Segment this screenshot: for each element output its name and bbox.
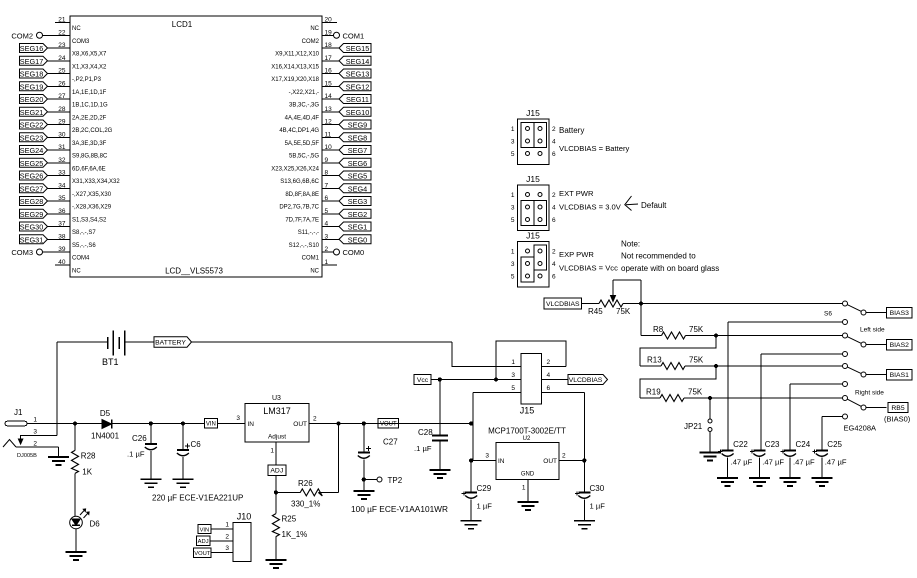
svg-text:2: 2 xyxy=(313,416,317,423)
svg-text:SEG12: SEG12 xyxy=(346,82,370,91)
svg-text:J10: J10 xyxy=(237,512,252,522)
svg-text:24: 24 xyxy=(58,55,66,62)
svg-text:34: 34 xyxy=(58,182,66,189)
svg-text:6: 6 xyxy=(552,151,556,158)
svg-text:SEG17: SEG17 xyxy=(20,57,44,66)
svg-text:SEG22: SEG22 xyxy=(20,121,44,130)
svg-text:SEG0: SEG0 xyxy=(348,235,367,244)
svg-text:C22: C22 xyxy=(733,440,748,449)
svg-text:SEG27: SEG27 xyxy=(20,184,44,193)
svg-text:LCD__VLS5573: LCD__VLS5573 xyxy=(165,267,223,276)
svg-text:3: 3 xyxy=(511,372,515,379)
svg-text:3: 3 xyxy=(511,139,515,146)
svg-text:4: 4 xyxy=(547,372,551,379)
svg-text:Vcc: Vcc xyxy=(417,377,429,384)
svg-text:VIN: VIN xyxy=(200,527,210,533)
svg-text:COM2: COM2 xyxy=(11,31,33,40)
svg-text:SEG1: SEG1 xyxy=(348,223,367,232)
svg-text:33: 33 xyxy=(58,170,66,177)
svg-text:5B,5C,-,5G: 5B,5C,-,5G xyxy=(289,154,319,160)
svg-text:X16,X14,X13,X15: X16,X14,X13,X15 xyxy=(271,64,319,70)
svg-text:EXT PWR: EXT PWR xyxy=(559,189,594,198)
svg-text:6: 6 xyxy=(325,195,329,202)
svg-text:C29: C29 xyxy=(477,484,492,493)
svg-text:2: 2 xyxy=(325,246,329,253)
svg-text:.47 µF: .47 µF xyxy=(762,458,784,467)
svg-text:COM0: COM0 xyxy=(343,248,365,257)
svg-text:C26: C26 xyxy=(132,434,147,443)
svg-text:1: 1 xyxy=(325,259,329,266)
svg-text:Note:: Note: xyxy=(621,240,640,249)
svg-text:SEG7: SEG7 xyxy=(348,146,367,155)
svg-text:1K_1%: 1K_1% xyxy=(282,530,308,539)
svg-text:1: 1 xyxy=(511,359,515,366)
svg-text:3: 3 xyxy=(33,429,37,436)
svg-text:S1,S3,S4,S2: S1,S3,S4,S2 xyxy=(72,217,107,223)
svg-text:COM3: COM3 xyxy=(72,39,90,45)
svg-text:.47 µF: .47 µF xyxy=(825,458,847,467)
svg-text:13: 13 xyxy=(325,106,333,113)
svg-text:operate with on board glass: operate with on board glass xyxy=(621,264,719,273)
svg-text:C24: C24 xyxy=(796,440,811,449)
svg-text:1: 1 xyxy=(511,249,515,256)
svg-text:COM1: COM1 xyxy=(343,31,365,40)
svg-text:37: 37 xyxy=(58,221,66,228)
svg-text:S6: S6 xyxy=(824,311,832,318)
svg-text:ADJ: ADJ xyxy=(270,468,283,475)
svg-text:1: 1 xyxy=(511,126,515,133)
svg-text:BIAS3: BIAS3 xyxy=(890,310,909,317)
svg-text:Right side: Right side xyxy=(855,390,884,397)
svg-text:SEG30: SEG30 xyxy=(20,223,44,232)
svg-text:X8,X6,X5,X7: X8,X6,X5,X7 xyxy=(72,52,107,58)
svg-text:-,X28,X36,X29: -,X28,X36,X29 xyxy=(72,205,112,211)
svg-text:SEG21: SEG21 xyxy=(20,108,44,117)
svg-text:1: 1 xyxy=(225,522,229,529)
svg-text:VLCDBIAS = 3.0V: VLCDBIAS = 3.0V xyxy=(559,203,622,212)
svg-text:330_1%: 330_1% xyxy=(291,500,320,509)
svg-text:DP2,7G,7B,7C: DP2,7G,7B,7C xyxy=(279,205,319,211)
svg-text:COM4: COM4 xyxy=(72,256,90,262)
svg-text:J1: J1 xyxy=(14,408,23,417)
svg-text:VLCDBIAS = Vcc: VLCDBIAS = Vcc xyxy=(559,264,618,273)
svg-text:VIN: VIN xyxy=(206,421,216,427)
svg-text:26: 26 xyxy=(58,80,66,87)
svg-text:VLCDBIAS: VLCDBIAS xyxy=(569,377,603,384)
svg-text:SEG16: SEG16 xyxy=(20,44,44,53)
svg-text:15: 15 xyxy=(325,80,333,87)
svg-text:SEG24: SEG24 xyxy=(20,146,44,155)
svg-text:R8: R8 xyxy=(653,325,664,334)
svg-text:4: 4 xyxy=(552,261,556,268)
svg-text:SEG26: SEG26 xyxy=(20,172,44,181)
svg-text:3: 3 xyxy=(511,261,515,268)
svg-text:.1 µF: .1 µF xyxy=(127,450,145,459)
svg-text:SEG13: SEG13 xyxy=(346,70,370,79)
svg-text:14: 14 xyxy=(325,93,333,100)
svg-text:17: 17 xyxy=(325,55,333,62)
svg-text:SEG14: SEG14 xyxy=(346,57,370,66)
svg-text:5: 5 xyxy=(511,385,515,392)
svg-text:SEG11: SEG11 xyxy=(346,95,369,104)
svg-text:U3: U3 xyxy=(272,395,281,402)
svg-text:7D,7F,7A,7E: 7D,7F,7A,7E xyxy=(285,217,319,223)
svg-text:R28: R28 xyxy=(81,452,96,461)
svg-text:J15: J15 xyxy=(520,406,535,416)
svg-text:SEG4: SEG4 xyxy=(348,184,367,193)
svg-text:3: 3 xyxy=(225,545,229,552)
svg-text:J15: J15 xyxy=(526,231,540,241)
svg-text:SEG10: SEG10 xyxy=(346,108,370,117)
svg-text:1: 1 xyxy=(511,192,515,199)
svg-text:SEG23: SEG23 xyxy=(20,133,44,142)
svg-text:3: 3 xyxy=(236,415,240,422)
svg-text:1 µF: 1 µF xyxy=(477,502,493,511)
svg-text:SEG28: SEG28 xyxy=(20,197,44,206)
svg-text:29: 29 xyxy=(58,119,66,126)
svg-text:8D,8F,8A,8E: 8D,8F,8A,8E xyxy=(285,192,319,198)
svg-text:.1 µF: .1 µF xyxy=(414,444,432,453)
svg-text:75K: 75K xyxy=(689,325,704,334)
svg-text:Left side: Left side xyxy=(860,327,885,334)
svg-text:BATTERY: BATTERY xyxy=(155,339,186,346)
svg-text:2: 2 xyxy=(552,192,556,199)
svg-text:COM3: COM3 xyxy=(11,248,33,257)
svg-text:COM1: COM1 xyxy=(302,256,320,262)
svg-text:S12,-,-,S10: S12,-,-,S10 xyxy=(289,243,320,249)
svg-text:S8,-,-,S7: S8,-,-,S7 xyxy=(72,230,96,236)
svg-text:2: 2 xyxy=(225,534,229,541)
svg-text:2: 2 xyxy=(547,359,551,366)
svg-text:4: 4 xyxy=(325,221,329,228)
svg-text:.47 µF: .47 µF xyxy=(793,458,815,467)
svg-text:12: 12 xyxy=(325,119,333,126)
svg-text:30: 30 xyxy=(58,131,66,138)
svg-text:75K: 75K xyxy=(689,356,704,365)
svg-text:3: 3 xyxy=(325,233,329,240)
svg-text:1K: 1K xyxy=(82,468,92,477)
svg-text:3: 3 xyxy=(511,205,515,212)
svg-text:(BIAS0): (BIAS0) xyxy=(884,415,911,424)
svg-text:1: 1 xyxy=(270,448,274,455)
svg-text:5A,5E,5D,5F: 5A,5E,5D,5F xyxy=(285,141,320,147)
svg-text:R13: R13 xyxy=(647,356,662,365)
svg-text:RB5: RB5 xyxy=(891,405,904,412)
svg-text:3A,3E,3D,3F: 3A,3E,3D,3F xyxy=(72,141,107,147)
svg-text:75K: 75K xyxy=(688,388,703,397)
svg-text:R19: R19 xyxy=(646,388,661,397)
svg-text:Battery: Battery xyxy=(559,126,584,135)
svg-text:BT1: BT1 xyxy=(102,357,119,367)
svg-text:SEG2: SEG2 xyxy=(348,210,367,219)
svg-text:6: 6 xyxy=(547,385,551,392)
svg-text:1N4001: 1N4001 xyxy=(91,432,120,441)
svg-text:36: 36 xyxy=(58,208,66,215)
svg-text:1 µF: 1 µF xyxy=(590,502,606,511)
svg-text:18: 18 xyxy=(325,42,333,49)
svg-text:31: 31 xyxy=(58,144,66,151)
svg-text:X1,X3,X4,X2: X1,X3,X4,X2 xyxy=(72,64,107,70)
svg-text:SEG18: SEG18 xyxy=(20,70,44,79)
svg-text:OUT: OUT xyxy=(543,458,557,465)
svg-text:S9,8G,8B,8C: S9,8G,8B,8C xyxy=(72,154,108,160)
svg-text:VOUT: VOUT xyxy=(380,421,397,427)
svg-text:SEG5: SEG5 xyxy=(348,172,367,181)
svg-text:Default: Default xyxy=(641,201,667,210)
svg-text:4: 4 xyxy=(552,205,556,212)
svg-text:C28: C28 xyxy=(418,428,433,437)
svg-text:100 µF ECE-V1AA101WR: 100 µF ECE-V1AA101WR xyxy=(351,504,448,514)
svg-text:23: 23 xyxy=(58,42,66,49)
svg-text:5: 5 xyxy=(511,274,515,281)
svg-text:J15: J15 xyxy=(526,174,540,184)
svg-text:IN: IN xyxy=(498,458,505,465)
svg-text:SEG15: SEG15 xyxy=(346,44,370,53)
svg-text:DJ005B: DJ005B xyxy=(17,453,37,459)
svg-text:BIAS1: BIAS1 xyxy=(890,372,909,379)
svg-text:NC: NC xyxy=(72,268,81,274)
svg-text:4A,4E,4D,4F: 4A,4E,4D,4F xyxy=(285,115,320,121)
svg-text:S13,6G,6B,6C: S13,6G,6B,6C xyxy=(280,179,319,185)
svg-text:32: 32 xyxy=(58,157,66,164)
svg-text:ADJ: ADJ xyxy=(198,539,209,545)
svg-text:SEG31: SEG31 xyxy=(20,235,44,244)
svg-text:1: 1 xyxy=(522,485,526,492)
svg-text:22: 22 xyxy=(58,29,66,36)
svg-text:6D,6F,6A,6E: 6D,6F,6A,6E xyxy=(72,166,106,172)
svg-text:25: 25 xyxy=(58,68,66,75)
svg-text:SEG6: SEG6 xyxy=(348,159,367,168)
svg-text:J15: J15 xyxy=(526,108,540,118)
svg-text:S5,-,-,S6: S5,-,-,S6 xyxy=(72,243,96,249)
svg-text:NC: NC xyxy=(72,26,81,32)
svg-text:D5: D5 xyxy=(100,409,111,418)
svg-text:NC: NC xyxy=(310,26,319,32)
svg-text:X9,X11,X12,X10: X9,X11,X12,X10 xyxy=(275,52,320,58)
svg-text:1B,1C,1D,1G: 1B,1C,1D,1G xyxy=(72,103,108,109)
svg-text:C30: C30 xyxy=(590,484,605,493)
svg-text:SEG19: SEG19 xyxy=(20,82,44,91)
svg-text:D6: D6 xyxy=(90,520,101,529)
svg-text:OUT: OUT xyxy=(293,421,307,428)
svg-text:IN: IN xyxy=(248,421,255,428)
svg-text:35: 35 xyxy=(58,195,66,202)
svg-text:10: 10 xyxy=(325,144,333,151)
svg-text:EG4208A: EG4208A xyxy=(844,424,877,433)
svg-text:5: 5 xyxy=(511,151,515,158)
svg-text:VLCDBIAS = Battery: VLCDBIAS = Battery xyxy=(559,144,629,153)
svg-text:R26: R26 xyxy=(298,479,313,488)
svg-text:39: 39 xyxy=(58,246,66,253)
svg-text:16: 16 xyxy=(325,68,333,75)
svg-text:8: 8 xyxy=(325,170,329,177)
svg-text:R45: R45 xyxy=(588,307,603,316)
svg-text:-,X27,X35,X30: -,X27,X35,X30 xyxy=(72,192,112,198)
svg-text:1A,1E,1D,1F: 1A,1E,1D,1F xyxy=(72,90,107,96)
svg-text:40: 40 xyxy=(58,259,66,266)
svg-text:11: 11 xyxy=(325,131,332,138)
svg-text:5: 5 xyxy=(325,208,329,215)
svg-text:2: 2 xyxy=(552,126,556,133)
svg-text:3B,3C,-,3G: 3B,3C,-,3G xyxy=(289,103,319,109)
svg-text:SEG9: SEG9 xyxy=(348,121,367,130)
svg-text:19: 19 xyxy=(325,29,333,36)
svg-text:2B,2C,COL,2G: 2B,2C,COL,2G xyxy=(72,128,113,134)
svg-text:VOUT: VOUT xyxy=(194,551,211,557)
svg-text:NC: NC xyxy=(310,268,319,274)
svg-text:7: 7 xyxy=(325,182,329,189)
svg-text:X23,X25,X26,X24: X23,X25,X26,X24 xyxy=(271,166,319,172)
svg-text:BIAS2: BIAS2 xyxy=(890,342,909,349)
svg-text:SEG8: SEG8 xyxy=(348,133,367,142)
svg-text:2A,2E,2D,2F: 2A,2E,2D,2F xyxy=(72,115,107,121)
svg-text:-,P2,P1,P3: -,P2,P1,P3 xyxy=(72,77,102,83)
svg-text:Not recommended to: Not recommended to xyxy=(621,252,696,261)
svg-text:GND: GND xyxy=(521,472,535,478)
svg-text:SEG25: SEG25 xyxy=(20,159,44,168)
svg-text:TP2: TP2 xyxy=(388,476,403,485)
svg-text:2: 2 xyxy=(33,441,37,448)
svg-text:28: 28 xyxy=(58,106,66,113)
svg-text:SEG20: SEG20 xyxy=(20,95,44,104)
svg-text:EXP PWR: EXP PWR xyxy=(559,250,594,259)
svg-text:.47 µF: .47 µF xyxy=(731,458,753,467)
svg-text:220 µF ECE-V1EA221UP: 220 µF ECE-V1EA221UP xyxy=(152,494,243,503)
svg-text:6: 6 xyxy=(552,274,556,281)
svg-text:MCP1700T-3002E/TT: MCP1700T-3002E/TT xyxy=(488,427,566,436)
svg-text:38: 38 xyxy=(58,233,66,240)
svg-text:9: 9 xyxy=(325,157,329,164)
svg-text:U2: U2 xyxy=(523,436,531,442)
svg-text:-,X22,X21,-: -,X22,X21,- xyxy=(289,90,319,96)
svg-text:LM317: LM317 xyxy=(263,406,291,416)
svg-text:20: 20 xyxy=(325,17,333,24)
svg-text:JP21: JP21 xyxy=(684,422,703,431)
svg-text:3: 3 xyxy=(485,453,489,460)
svg-text:4B,4C,DP1,4G: 4B,4C,DP1,4G xyxy=(279,128,319,134)
svg-text:C6: C6 xyxy=(191,440,202,449)
svg-text:SEG29: SEG29 xyxy=(20,210,44,219)
svg-text:X17,X19,X20,X18: X17,X19,X20,X18 xyxy=(271,77,319,83)
svg-text:LCD1: LCD1 xyxy=(172,20,193,29)
svg-text:2: 2 xyxy=(562,453,566,460)
svg-text:27: 27 xyxy=(58,93,66,100)
svg-text:21: 21 xyxy=(58,17,66,24)
svg-text:VLCDBIAS: VLCDBIAS xyxy=(546,301,580,308)
svg-text:C25: C25 xyxy=(827,440,842,449)
svg-text:Adjust: Adjust xyxy=(268,434,286,441)
svg-text:6: 6 xyxy=(552,217,556,224)
svg-text:2: 2 xyxy=(552,249,556,256)
svg-text:75K: 75K xyxy=(616,307,631,316)
svg-text:5: 5 xyxy=(511,217,515,224)
svg-text:S11,-,-,-: S11,-,-,- xyxy=(298,230,319,236)
svg-text:C27: C27 xyxy=(383,438,398,447)
svg-text:R25: R25 xyxy=(282,515,297,524)
svg-text:X31,X33,X34,X32: X31,X33,X34,X32 xyxy=(72,179,120,185)
svg-text:C23: C23 xyxy=(765,440,780,449)
svg-text:SEG3: SEG3 xyxy=(348,197,367,206)
svg-text:4: 4 xyxy=(552,139,556,146)
svg-text:COM2: COM2 xyxy=(302,39,320,45)
svg-text:1: 1 xyxy=(33,417,37,424)
